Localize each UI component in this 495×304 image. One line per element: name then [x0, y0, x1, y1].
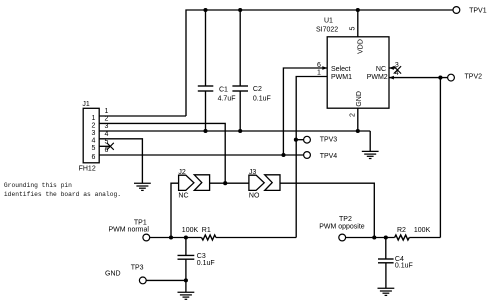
- svg-text:PWM normal: PWM normal: [109, 226, 150, 233]
- svg-text:0.1uF: 0.1uF: [253, 95, 271, 102]
- svg-text:TP3: TP3: [131, 264, 144, 271]
- svg-text:0.1uF: 0.1uF: [395, 263, 413, 270]
- svg-text:FH12: FH12: [79, 166, 96, 173]
- svg-text:SI7022: SI7022: [316, 27, 338, 34]
- svg-text:J3: J3: [249, 169, 257, 176]
- svg-text:VDD: VDD: [358, 39, 365, 54]
- svg-text:R2: R2: [397, 227, 406, 234]
- svg-text:TP2: TP2: [339, 216, 352, 223]
- svg-text:4: 4: [91, 138, 95, 145]
- svg-text:R1: R1: [202, 227, 211, 234]
- svg-text:2: 2: [350, 113, 357, 117]
- svg-text:NC: NC: [178, 192, 188, 199]
- svg-text:GND: GND: [356, 91, 363, 107]
- svg-text:3: 3: [91, 130, 95, 137]
- svg-text:4: 4: [395, 70, 399, 77]
- svg-text:GND: GND: [105, 271, 121, 278]
- svg-text:PWM2: PWM2: [367, 74, 388, 81]
- svg-text:U1: U1: [324, 18, 333, 25]
- svg-text:100K: 100K: [414, 227, 431, 234]
- svg-text:2: 2: [105, 116, 109, 123]
- svg-text:6: 6: [91, 154, 95, 161]
- svg-text:6: 6: [317, 62, 321, 69]
- svg-text:4: 4: [105, 131, 109, 138]
- svg-text:PWM1: PWM1: [331, 74, 352, 81]
- svg-text:PWM opposite: PWM opposite: [319, 223, 365, 230]
- svg-text:TPV3: TPV3: [320, 137, 338, 144]
- svg-text:1: 1: [317, 70, 321, 77]
- svg-text:J2: J2: [178, 169, 186, 176]
- svg-text:Select: Select: [331, 66, 351, 73]
- svg-text:NO: NO: [249, 192, 260, 199]
- svg-text:J1: J1: [82, 101, 90, 108]
- svg-text:4.7uF: 4.7uF: [218, 96, 236, 103]
- svg-text:identifies the board as analog: identifies the board as analog.: [4, 191, 121, 198]
- svg-text:3: 3: [105, 123, 109, 130]
- svg-text:100K: 100K: [182, 227, 199, 234]
- svg-text:0.1uF: 0.1uF: [197, 260, 215, 267]
- svg-text:5: 5: [105, 139, 109, 146]
- svg-text:1: 1: [91, 115, 95, 122]
- svg-text:TPV2: TPV2: [465, 74, 483, 81]
- svg-text:NC: NC: [376, 66, 386, 73]
- svg-text:C1: C1: [219, 86, 228, 93]
- svg-text:Grounding this pin: Grounding this pin: [4, 182, 72, 189]
- svg-text:C2: C2: [253, 86, 262, 93]
- svg-text:1: 1: [105, 108, 109, 115]
- svg-text:TPV4: TPV4: [320, 153, 338, 160]
- svg-text:5: 5: [350, 27, 357, 31]
- svg-text:2: 2: [91, 122, 95, 129]
- svg-text:TPV1: TPV1: [469, 8, 487, 15]
- svg-text:5: 5: [91, 145, 95, 152]
- svg-text:6: 6: [105, 147, 109, 154]
- svg-text:3: 3: [395, 62, 399, 69]
